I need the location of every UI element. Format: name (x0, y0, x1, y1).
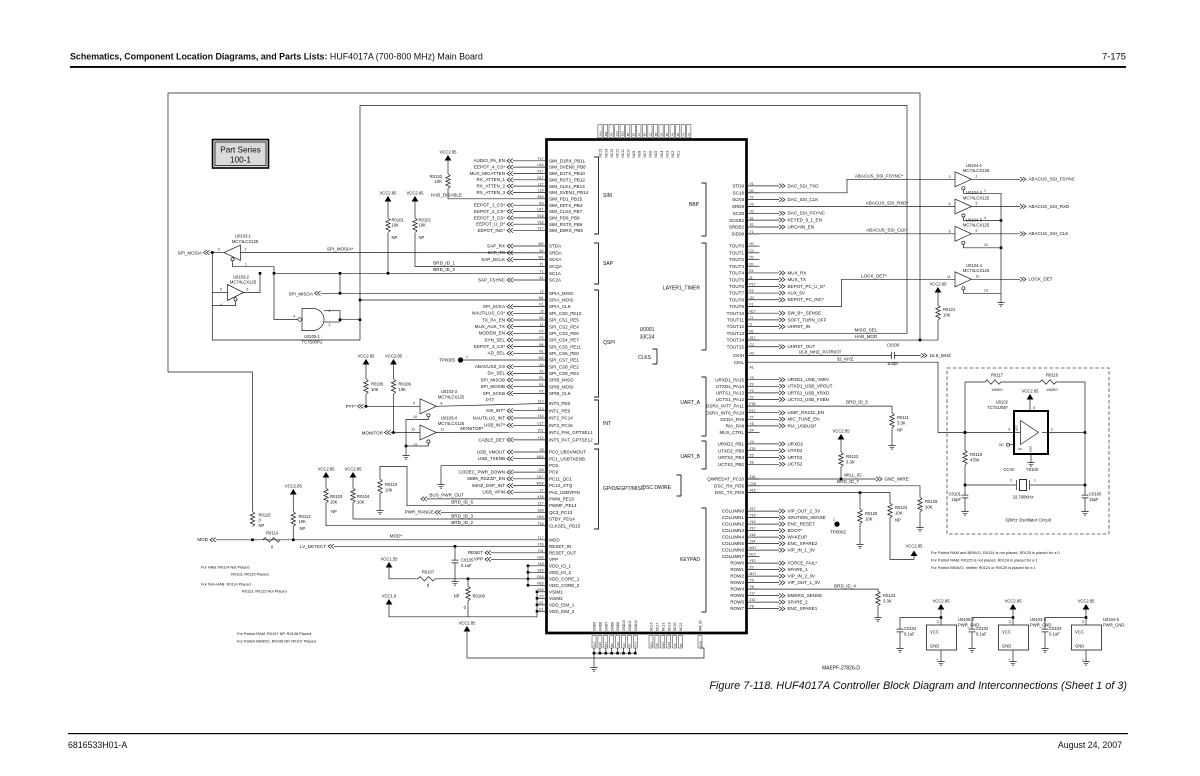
svg-text:C17: C17 (537, 421, 543, 425)
svg-text:X17: X17 (750, 507, 756, 511)
svg-text:IGNITION_SENSE: IGNITION_SENSE (788, 515, 826, 520)
svg-text:HAB_DISABLE: HAB_DISABLE (431, 193, 462, 198)
svg-text:A16: A16 (598, 641, 602, 647)
svg-text:ABACUS_SSI_CLK*: ABACUS_SSI_CLK* (866, 228, 908, 233)
svg-text:UCTS1_PA12: UCTS1_PA12 (716, 397, 745, 402)
svg-text:BRD_ID_7: BRD_ID_7 (837, 479, 859, 484)
svg-text:GND12: GND12 (634, 620, 638, 631)
svg-text:AUX_5V: AUX_5V (788, 290, 806, 295)
svg-text:MC74LCX125: MC74LCX125 (963, 168, 990, 173)
svg-text:A10: A10 (616, 641, 620, 647)
svg-text:MODEM_EN: MODEM_EN (479, 331, 505, 336)
svg-text:BRD_ID_4: BRD_ID_4 (834, 583, 856, 588)
svg-text:0.1uF: 0.1uF (904, 631, 915, 636)
svg-text:U0103-5: U0103-5 (1030, 617, 1047, 622)
svg-text:TOUT7: TOUT7 (729, 291, 744, 296)
svg-text:INT4_PA6_GPTSEL1: INT4_PA6_GPTSEL1 (549, 430, 593, 435)
svg-text:UTXD1_USB_VPOUT: UTXD1_USB_VPOUT (788, 384, 833, 389)
resistor R0105 10K (PTT pull-up) (364, 379, 368, 394)
svg-text:SPI_MOSIA*: SPI_MOSIA* (327, 246, 354, 251)
svg-text:Z10: Z10 (750, 598, 756, 602)
svg-text:SYN_SEL: SYN_SEL (485, 337, 506, 342)
svg-text:Z1: Z1 (540, 263, 544, 267)
svg-text:R0107: R0107 (422, 570, 435, 575)
svg-text:S17: S17 (750, 336, 756, 340)
svg-text:SOFT_TURN_OFF: SOFT_TURN_OFF (788, 317, 827, 322)
svg-text:A12: A12 (598, 131, 602, 137)
svg-text:I2: I2 (750, 323, 753, 327)
svg-text:MUX_AUX_TX: MUX_AUX_TX (475, 324, 505, 329)
svg-text:NC4: NC4 (660, 151, 664, 158)
svg-text:P17: P17 (750, 282, 756, 286)
svg-text:NC21: NC21 (679, 622, 683, 631)
svg-text:NP: NP (331, 509, 337, 514)
svg-text:STD8: STD8 (732, 184, 744, 189)
svg-text:WAKEUP: WAKEUP (788, 535, 808, 540)
svg-text:LOCK_DET: LOCK_DET (1029, 277, 1053, 282)
svg-text:SPI_CS8_PE2: SPI_CS8_PE2 (549, 364, 579, 369)
svg-text:SRDA: SRDA (549, 250, 563, 255)
svg-text:Z12: Z12 (538, 400, 544, 404)
svg-text:ROW2: ROW2 (730, 574, 744, 579)
svg-text:10K: 10K (865, 516, 873, 521)
svg-text:U0105-1: U0105-1 (304, 334, 321, 339)
net LOCK_DET output (971, 278, 1020, 280)
svg-text:VPP: VPP (474, 557, 483, 562)
svg-text:SPIA_MOSI: SPIA_MOSI (549, 298, 574, 303)
svg-text:MC74LCX125: MC74LCX125 (232, 239, 259, 244)
svg-text:UHRST_IN: UHRST_IN (788, 324, 811, 329)
junction LV_DETECT / C0105 (454, 545, 457, 548)
ground below C0100 (1084, 508, 1086, 512)
svg-text:RESET_IN: RESET_IN (549, 544, 571, 549)
svg-text:R0116: R0116 (1046, 373, 1059, 378)
svg-text:TOUT11: TOUT11 (727, 318, 744, 323)
svg-text:V1: V1 (750, 182, 754, 186)
svg-text:PTT*: PTT* (346, 404, 357, 409)
svg-text:U0103-3: U0103-3 (441, 389, 458, 394)
svg-text:SC2A: SC2A (549, 278, 562, 283)
svg-text:SCKA: SCKA (549, 257, 562, 262)
capacitor C0101 15pF (964, 484, 967, 487)
svg-text:CABLE_DET: CABLE_DET (478, 437, 505, 442)
svg-text:C0100: C0100 (1089, 492, 1102, 497)
svg-text:0: 0 (427, 583, 430, 588)
svg-text:3: 3 (218, 248, 220, 252)
svg-text:V17: V17 (537, 227, 543, 231)
svg-text:ABACUS_SSI_FSYNC: ABACUS_SSI_FSYNC (1029, 177, 1076, 182)
svg-text:M1: M1 (539, 296, 544, 300)
svg-text:SPI_MISOA: SPI_MISOA (288, 291, 313, 296)
svg-text:2: 2 (976, 174, 978, 178)
svg-text:C0102: C0102 (976, 626, 989, 631)
svg-text:PC12_STQ: PC12_STQ (549, 483, 573, 488)
svg-text:MIC_TUNE_EN: MIC_TUNE_EN (788, 417, 820, 422)
svg-text:B15: B15 (537, 195, 543, 199)
svg-text:SPIA_CLK: SPIA_CLK (549, 304, 571, 309)
svg-text:B5: B5 (654, 132, 658, 136)
svg-text:10K: 10K (925, 504, 933, 509)
net MISO_SEL routing rail (inner rectangle) (360, 106, 907, 334)
svg-text:VCC: VCC (1002, 630, 1011, 635)
svg-text:VCC2.85: VCC2.85 (930, 282, 948, 287)
svg-text:100pF: 100pF (887, 361, 899, 366)
svg-text:R0111: R0111 (897, 415, 909, 420)
svg-text:TOUT5: TOUT5 (729, 277, 744, 282)
svg-text:VDD_EIM_2: VDD_EIM_2 (549, 609, 575, 614)
svg-text:K1: K1 (539, 303, 543, 307)
oscillator input node wire (964, 382, 966, 433)
svg-text:ROW0: ROW0 (730, 561, 744, 566)
svg-text:ABACUS_SSI_RXD: ABACUS_SSI_RXD (1029, 204, 1070, 209)
svg-text:S1: S1 (750, 216, 754, 220)
svg-text:H1: H1 (750, 242, 754, 246)
svg-text:RIA_USBUSP: RIA_USBUSP (788, 423, 817, 428)
svg-text:R0123: R0123 (883, 593, 896, 598)
svg-text:Z7: Z7 (750, 415, 754, 419)
svg-text:PC8: PC8 (549, 463, 558, 468)
svg-text:GND: GND (1075, 644, 1084, 649)
resistor R0115 0 NP (250, 512, 254, 527)
svg-text:F1: F1 (750, 303, 754, 307)
svg-text:MUX_CTRL: MUX_CTRL (719, 430, 744, 435)
svg-text:B13: B13 (649, 641, 653, 647)
svg-text:PWR_RANGE: PWR_RANGE (405, 510, 434, 515)
test point TP0002 on ENC_RESET (834, 522, 839, 527)
svg-text:GND: GND (1029, 446, 1033, 452)
capacitor C0100 15pF (1084, 484, 1087, 487)
svg-text:SIM_CLK1_PB13: SIM_CLK1_PB13 (549, 184, 585, 189)
ground for U0104 enables (1000, 299, 1002, 303)
svg-text:NC16: NC16 (650, 622, 654, 631)
svg-text:F18: F18 (750, 402, 756, 406)
svg-text:1: 1 (984, 189, 986, 193)
svg-text:SPI_CS3_PE6: SPI_CS3_PE6 (549, 331, 579, 336)
svg-text:0: 0 (464, 605, 467, 610)
svg-text:MOD: MOD (549, 537, 560, 542)
svg-text:ROW3: ROW3 (730, 580, 744, 585)
svg-text:C0104: C0104 (904, 626, 917, 631)
svg-text:R0119: R0119 (970, 452, 983, 457)
svg-text:F17: F17 (538, 157, 544, 161)
junction R0125 tap (859, 491, 862, 494)
bracket UART_A (702, 377, 707, 436)
svg-text:Schematics, Component Location: Schematics, Component Location Diagrams,… (70, 52, 483, 62)
svg-text:10K: 10K (419, 223, 427, 228)
svg-text:W17: W17 (750, 546, 757, 550)
bracket UART_B (702, 441, 707, 469)
svg-text:14: 14 (1008, 620, 1012, 624)
svg-text:NC: NC (999, 443, 1004, 447)
svg-text:10: 10 (984, 243, 988, 247)
svg-text:LOCK_DET*: LOCK_DET* (861, 273, 887, 278)
NAND input tie wires (324, 310, 340, 312)
svg-text:G17: G17 (537, 176, 544, 180)
svg-text:MC74LCX125: MC74LCX125 (438, 394, 465, 399)
svg-text:MUX_TX: MUX_TX (788, 277, 806, 282)
svg-text:UART_B: UART_B (680, 454, 700, 460)
svg-text:NC3: NC3 (665, 151, 669, 158)
svg-text:SIM_D1RX_PB11: SIM_D1RX_PB11 (549, 158, 586, 163)
svg-text:MUX_MICATTEN: MUX_MICATTEN (469, 171, 505, 176)
svg-text:SPI_CS9_PE3: SPI_CS9_PE3 (549, 371, 579, 376)
svg-text:EEPOT_PC_INC*: EEPOT_PC_INC* (788, 297, 825, 302)
svg-text:ROW1: ROW1 (730, 567, 744, 572)
svg-text:U0103-4: U0103-4 (441, 416, 458, 421)
svg-text:PWMF_PE14: PWMF_PE14 (549, 503, 577, 508)
svg-text:NC19: NC19 (667, 622, 671, 631)
junction oscillator input (964, 431, 967, 434)
svg-text:2: 2 (329, 323, 331, 327)
svg-text:N1: N1 (539, 349, 543, 353)
resistor R0125 10K (859, 493, 861, 509)
svg-text:HAB_MOD: HAB_MOD (855, 334, 878, 339)
svg-text:A1: A1 (750, 366, 754, 370)
svg-text:For Non-HAB: R0114 Placed: For Non-HAB: R0114 Placed (201, 582, 251, 587)
svg-text:SPI_CS2_PE4: SPI_CS2_PE4 (549, 324, 579, 329)
svg-text:TOUT9: TOUT9 (729, 304, 744, 309)
svg-text:STBY_PD14: STBY_PD14 (549, 517, 575, 522)
header rule (70, 66, 1126, 68)
svg-text:KEYPAD: KEYPAD (680, 557, 700, 563)
svg-text:S16: S16 (537, 568, 543, 572)
svg-text:1: 1 (466, 355, 468, 359)
svg-text:UART_A: UART_A (680, 400, 700, 406)
svg-text:BRD_ID_1: BRD_ID_1 (433, 261, 455, 266)
svg-text:B3: B3 (628, 643, 632, 647)
svg-text:MAEPF-27826-D: MAEPF-27826-D (822, 666, 860, 672)
svg-text:URCHIN_EN: URCHIN_EN (788, 224, 815, 229)
svg-text:NC7: NC7 (643, 151, 647, 158)
svg-text:Y16: Y16 (537, 542, 543, 546)
svg-text:LV_DETECT: LV_DETECT (300, 544, 326, 549)
svg-text:X1: X1 (539, 276, 543, 280)
resistor R0129 10K (918, 497, 922, 512)
svg-text:W2: W2 (538, 242, 543, 246)
svg-text:A13: A13 (661, 641, 665, 647)
svg-text:C2: C2 (750, 343, 754, 347)
svg-text:SCKB2: SCKB2 (729, 218, 744, 223)
svg-text:Z16: Z16 (750, 475, 756, 479)
svg-text:ENC_SPARE2: ENC_SPARE2 (788, 541, 818, 546)
svg-text:M2: M2 (539, 356, 544, 360)
svg-text:VCC2.85: VCC2.85 (407, 191, 425, 196)
svg-text:URXD1_PA15: URXD1_PA15 (715, 377, 744, 382)
svg-text:H17: H17 (634, 641, 638, 647)
svg-text:N16: N16 (537, 581, 543, 585)
svg-text:TOUT10: TOUT10 (727, 311, 745, 316)
buffer enable ground rail (1000, 193, 1002, 299)
svg-text:PWR_GND: PWR_GND (1103, 623, 1124, 628)
ground below R0111 (891, 442, 893, 446)
svg-text:W18: W18 (537, 482, 544, 486)
svg-text:SPARE_1: SPARE_1 (788, 567, 809, 572)
svg-text:R0104: R0104 (357, 494, 370, 499)
svg-text:SIM_PD0_PB9: SIM_PD0_PB9 (549, 215, 580, 220)
svg-text:C5: C5 (648, 132, 652, 136)
junction MONITOR/R0106 (392, 431, 395, 434)
svg-text:MISO_SEL: MISO_SEL (855, 328, 878, 333)
svg-text:Y12: Y12 (537, 436, 543, 440)
svg-text:C0105: C0105 (461, 558, 474, 563)
svg-text:SIM_D0TX_PB4: SIM_D0TX_PB4 (549, 203, 583, 208)
svg-text:1: 1 (833, 518, 835, 522)
svg-text:M16: M16 (537, 455, 544, 459)
svg-text:TP0002: TP0002 (830, 530, 846, 535)
svg-text:NAUTILUS_INT: NAUTILUS_INT (473, 415, 506, 420)
svg-text:SPI_SCKA: SPI_SCKA (483, 304, 506, 309)
svg-text:SPI_CS6_PE0: SPI_CS6_PE0 (549, 351, 579, 356)
svg-text:3.3K: 3.3K (897, 420, 906, 425)
svg-text:GND10: GND10 (622, 620, 626, 631)
svg-text:SRD8: SRD8 (732, 204, 745, 209)
svg-text:SAP_RX: SAP_RX (487, 243, 505, 248)
svg-text:CC4V: CC4V (1003, 467, 1014, 472)
svg-text:GND: GND (930, 644, 939, 649)
svg-text:R0129: R0129 (925, 499, 938, 504)
svg-text:C0106: C0106 (887, 343, 900, 348)
svg-text:U0104-5: U0104-5 (1103, 617, 1120, 622)
svg-text:NC17: NC17 (656, 622, 660, 631)
svg-text:NP: NP (419, 235, 425, 240)
svg-text:U1: U1 (750, 189, 754, 193)
svg-text:COLUMN5: COLUMN5 (722, 541, 745, 546)
svg-text:A9: A9 (609, 132, 613, 136)
svg-text:7: 7 (1081, 658, 1085, 660)
oscillator feedback to output node (1056, 382, 1085, 433)
svg-text:SC18: SC18 (733, 190, 745, 195)
capacitor C0104 0.1uF (899, 626, 901, 635)
bracket CLKS (653, 349, 658, 364)
svg-text:NC11: NC11 (621, 149, 625, 158)
svg-text:USB_VPIN: USB_VPIN (483, 490, 506, 495)
svg-text:J18: J18 (538, 468, 544, 472)
U0103-5 VCC/GND box (999, 625, 1029, 650)
resistor R0104 10K (to BRD_ID_3) (351, 488, 355, 503)
svg-text:SPI_CS7_PE1: SPI_CS7_PE1 (549, 358, 579, 363)
svg-text:QC3_PC13: QC3_PC13 (549, 510, 573, 515)
net SPIA_MOSI wire from MISO_SEL rail (359, 299, 362, 302)
svg-text:LAYER1_TIMER: LAYER1_TIMER (663, 286, 701, 292)
svg-text:DAC_SSI_FSYNC: DAC_SSI_FSYNC (788, 211, 826, 216)
svg-text:G2: G2 (750, 296, 755, 300)
svg-text:EMERG_SENSE: EMERG_SENSE (788, 593, 823, 598)
svg-text:L1: L1 (540, 323, 544, 327)
net ABACUS_SSI_RXD output (971, 206, 1020, 208)
svg-text:5: 5 (976, 202, 978, 206)
svg-text:SPARE_2: SPARE_2 (788, 600, 809, 605)
svg-text:5: 5 (220, 288, 222, 292)
svg-text:MONITOR*: MONITOR* (460, 426, 483, 431)
bracket QSPI (594, 290, 599, 397)
svg-text:VPP: VPP (549, 557, 558, 562)
svg-text:EEPOT_4_CS*: EEPOT_4_CS* (474, 165, 505, 170)
svg-text:15pF: 15pF (1089, 497, 1099, 502)
svg-text:A5: A5 (673, 643, 677, 647)
svg-text:For Patriot RAM, R0107 NP, R01: For Patriot RAM, R0107 NP, R0108 Placed (237, 631, 311, 636)
svg-text:Z17: Z17 (538, 502, 544, 506)
svg-text:NC13: NC13 (610, 149, 614, 158)
svg-text:BRD_ID_3: BRD_ID_3 (451, 513, 473, 518)
svg-text:R17: R17 (592, 641, 596, 647)
ground below R0125 (859, 541, 861, 545)
svg-text:VDD_IO_1: VDD_IO_1 (549, 563, 571, 568)
svg-text:DA_SEL: DA_SEL (488, 371, 506, 376)
svg-text:SPI_CS5_PE11: SPI_CS5_PE11 (549, 344, 581, 349)
svg-text:10K: 10K (895, 510, 903, 515)
svg-text:L17: L17 (538, 182, 544, 186)
resistor R0119 470K (964, 433, 966, 451)
svg-text:EEPOT_PC_U_D*: EEPOT_PC_U_D* (788, 284, 826, 289)
svg-text:GNE_WIRE: GNE_WIRE (885, 476, 909, 481)
svg-text:COLUMN6: COLUMN6 (722, 548, 745, 553)
svg-text:PTT: PTT (486, 398, 495, 403)
svg-text:DAC_SSI_TXD: DAC_SSI_TXD (788, 183, 820, 188)
svg-text:2: 2 (1051, 428, 1053, 432)
svg-text:SIM_D1TX_PB10: SIM_D1TX_PB10 (549, 171, 585, 176)
svg-text:UTXD2_PB0: UTXD2_PB0 (718, 448, 745, 453)
junction crystal node left (964, 431, 967, 434)
svg-text:UCTS2: UCTS2 (788, 462, 803, 467)
svg-text:MC74LCX125: MC74LCX125 (963, 195, 990, 200)
svg-text:NC9: NC9 (632, 151, 636, 158)
svg-text:8: 8 (441, 401, 443, 405)
svg-text:U0001: U0001 (640, 327, 655, 333)
svg-text:H2: H2 (750, 352, 754, 356)
svg-text:VIP_IN_1_3V: VIP_IN_1_3V (788, 548, 817, 553)
svg-text:C0103: C0103 (1049, 626, 1062, 631)
svg-text:NC15: NC15 (599, 149, 603, 158)
U0102 ground stub (1030, 454, 1032, 459)
net BRD_ID_0 wire (enable net to pin Y1) (273, 272, 276, 275)
svg-text:SAP_FSYNC: SAP_FSYNC (478, 277, 506, 282)
svg-text:13: 13 (413, 443, 417, 447)
svg-text:SSI_INT*: SSI_INT* (486, 408, 505, 413)
svg-text:7: 7 (1008, 658, 1012, 660)
svg-text:NC: NC (1018, 447, 1022, 451)
ground below C0101 (964, 508, 966, 512)
NAND gate U0105-1 TC7S00FU (302, 309, 324, 331)
svg-text:K2: K2 (539, 329, 543, 333)
svg-text:Y1: Y1 (539, 269, 543, 273)
svg-text:SID08: SID08 (731, 231, 744, 236)
svg-text:SIM_RST1_PB12: SIM_RST1_PB12 (549, 177, 585, 182)
svg-text:TP0005: TP0005 (439, 357, 455, 362)
U0104-5 VCC/GND box (1072, 625, 1102, 650)
svg-text:6: 6 (247, 288, 249, 292)
svg-text:R0110: R0110 (385, 482, 398, 487)
svg-text:S18: S18 (537, 508, 543, 512)
svg-text:32.768KHz: 32.768KHz (1013, 495, 1034, 500)
svg-text:A2: A2 (539, 249, 543, 253)
svg-text:CKIH: CKIH (733, 353, 744, 358)
wire R0115 top to left rail (168, 372, 253, 512)
svg-text:A54: A54 (667, 641, 671, 647)
svg-text:D1: D1 (750, 262, 754, 266)
svg-text:VCC1.8: VCC1.8 (382, 594, 397, 599)
svg-text:AUDIO_PA_EN: AUDIO_PA_EN (473, 158, 505, 163)
svg-text:0.1uF: 0.1uF (461, 563, 472, 568)
svg-text:SPI_CS0_PE10: SPI_CS0_PE10 (549, 311, 582, 316)
svg-text:MC74LCX125: MC74LCX125 (963, 268, 990, 273)
svg-text:R0108: R0108 (473, 594, 486, 599)
junction on MOD wire at R0115 (251, 539, 254, 542)
svg-text:VCC2.85: VCC2.85 (345, 467, 363, 472)
svg-text:Z2: Z2 (750, 396, 754, 400)
svg-text:SPIA_MISO: SPIA_MISO (549, 291, 574, 296)
svg-text:K18: K18 (537, 495, 543, 499)
bracket GPIO/EGPT/MISC (594, 449, 599, 529)
